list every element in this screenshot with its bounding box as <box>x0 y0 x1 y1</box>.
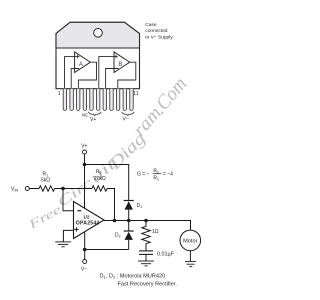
svg-text:11: 11 <box>133 91 138 97</box>
pin 7 <box>103 89 106 111</box>
svg-text:0.01µF: 0.01µF <box>157 251 175 257</box>
wire A +input to pin 1 <box>65 57 80 89</box>
V+ bracket (pins 5-6) <box>88 112 101 116</box>
svg-text:20kΩ: 20kΩ <box>94 176 106 182</box>
watermark <box>25 73 191 232</box>
wire noninverting input to ground <box>63 230 73 242</box>
pin 4 <box>83 89 86 111</box>
svg-text:NC: NC <box>82 112 88 117</box>
wire V+ terminal down to junction <box>84 154 86 165</box>
snubber capacitor 0.01uF <box>139 251 153 261</box>
svg-text:V+: V+ <box>81 143 87 149</box>
wire B output to pin 9 <box>118 62 136 88</box>
pin 8 <box>110 89 113 111</box>
pin 11 <box>130 89 133 111</box>
wire Vin to R1 <box>29 188 39 190</box>
resistor R1 <box>39 186 55 191</box>
svg-text:V−: V− <box>123 117 129 123</box>
wire op-amp output to node <box>104 221 191 231</box>
V- bracket (pins 10-11) <box>122 112 135 116</box>
pin 6 <box>97 89 100 111</box>
wire V- junction to V- terminal <box>84 250 86 260</box>
svg-text:Case: Case <box>145 22 157 28</box>
svg-text:A: A <box>79 62 83 68</box>
wire input node down to inverting input <box>63 189 74 211</box>
ground below motor <box>185 261 196 266</box>
node diode junction <box>127 219 131 223</box>
diode D1 <box>124 201 134 221</box>
wire R2 to feedback corner <box>107 189 115 221</box>
op-amp A triangle <box>75 52 91 73</box>
svg-text:G = −: G = − <box>137 172 150 178</box>
wire R1 to input node <box>55 188 64 190</box>
svg-text:D1, D2 : Motorola MUR420: D1, D2 : Motorola MUR420 <box>100 274 166 280</box>
pin 2 <box>70 89 73 111</box>
diode D2 <box>124 221 134 250</box>
wire A output to pin 3 <box>78 62 96 88</box>
svg-text:Motor: Motor <box>183 238 197 244</box>
pin 3 <box>77 89 80 111</box>
svg-text:to V− Supply.: to V− Supply. <box>145 35 173 41</box>
wire B +input to pin 6 <box>99 57 118 89</box>
pin 5 <box>90 89 93 111</box>
IC package U1 outline <box>56 22 140 88</box>
wire V+ junction down to op-amp V+ pin <box>84 165 86 209</box>
wire A -input to pin 2 <box>71 69 79 89</box>
wire B -input to pin 7 <box>106 69 119 89</box>
resistor R2 <box>92 186 107 191</box>
node feedback junction <box>113 219 117 223</box>
node snubber junction <box>144 219 148 223</box>
op-amp U1 1/2 OPA2544 <box>74 202 105 239</box>
svg-text:V−: V− <box>81 267 87 273</box>
svg-text:1Ω: 1Ω <box>152 229 159 235</box>
wire V- rail to D2 anode <box>85 249 129 251</box>
Vin terminal <box>25 187 29 191</box>
node input junction <box>61 187 65 191</box>
svg-text:connected: connected <box>145 28 167 34</box>
snubber resistor 1 ohm <box>142 221 150 251</box>
V- supply terminal <box>83 260 87 264</box>
wire V+ rail to D1 column <box>85 165 129 201</box>
pin 1 <box>63 89 66 111</box>
svg-text:V+: V+ <box>90 117 96 123</box>
wire input node to R2 <box>63 188 92 190</box>
gain formula G = -R2/R1 = -4 <box>137 169 173 182</box>
wire motor to ground <box>189 251 191 262</box>
svg-text:1: 1 <box>58 91 61 97</box>
motor M1 <box>180 230 201 251</box>
pin 10 <box>123 89 126 111</box>
svg-text:5kΩ: 5kΩ <box>41 178 50 184</box>
node V- junction <box>83 248 87 252</box>
svg-text:Fast Recovery Rectifier.: Fast Recovery Rectifier. <box>118 282 178 288</box>
pin 9 <box>116 89 119 111</box>
op-amp B triangle <box>114 52 130 73</box>
node V+ junction <box>83 163 87 167</box>
pins 1-11 <box>63 89 133 111</box>
svg-text:B: B <box>118 62 122 68</box>
svg-text:= −4: = −4 <box>163 172 173 178</box>
case note text <box>145 22 173 41</box>
svg-text:1/2: 1/2 <box>83 214 90 219</box>
wire op-amp V- pin down <box>84 232 86 249</box>
mounting hole <box>94 29 103 38</box>
ground at noninverting input <box>55 242 71 247</box>
ground below capacitor <box>138 261 154 266</box>
svg-text:OPA2544: OPA2544 <box>76 221 100 227</box>
